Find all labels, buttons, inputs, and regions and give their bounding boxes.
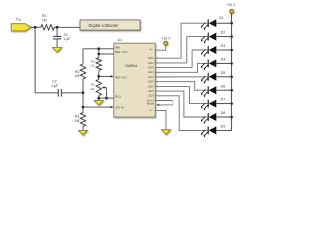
wire LM3914 pin LED9 to LED D9 (155, 96, 208, 131)
svg-text:REF OUT: REF OUT (115, 50, 128, 54)
LED D5 (201, 73, 216, 84)
ground below C1 (53, 48, 62, 53)
svg-text:D2: D2 (221, 31, 226, 35)
wire V- to ground (155, 110, 166, 129)
svg-text:D9: D9 (221, 125, 226, 129)
capacitor C1 (53, 36, 61, 39)
junction on +12V rail at D3 row (230, 49, 233, 52)
wire LED10 to Mode loop (155, 101, 173, 107)
wire R3 to ground (82, 127, 84, 131)
LED D8 (201, 113, 216, 124)
wire REF OUT node down to R4 (98, 54, 100, 58)
svg-text:LED9: LED9 (148, 95, 155, 98)
svg-text:D4: D4 (221, 58, 226, 62)
wire junction to C1 (56, 27, 58, 36)
svg-text:C1: C1 (64, 33, 68, 37)
svg-text:1M: 1M (75, 74, 80, 78)
resistor R1 (41, 25, 54, 30)
wire input node down left side (35, 27, 58, 93)
wire LM3914 pin LED1 to LED D1 (155, 23, 208, 58)
svg-text:RLO: RLO (115, 95, 122, 99)
ground below V- (162, 130, 171, 135)
svg-text:LED6: LED6 (148, 81, 155, 84)
resistor R3 (80, 113, 85, 127)
svg-text:LED2: LED2 (148, 62, 155, 65)
wire REF ADJ to IC with arrow (99, 75, 114, 77)
svg-text:U1: U1 (118, 38, 123, 42)
LED D7 (201, 100, 216, 111)
svg-text:V−: V− (149, 108, 153, 112)
wire pot bottom to RLO (99, 96, 114, 101)
wire R2 to SIG node (82, 79, 84, 107)
input terminal arrow VIN (11, 24, 31, 31)
svg-text:V+: V+ (149, 48, 153, 52)
svg-text:1 µF: 1 µF (64, 37, 71, 41)
wire input to R1 (31, 26, 41, 28)
wire C2 to node (61, 92, 83, 94)
capacitor C2 (58, 89, 61, 97)
svg-text:Digital voltmeter: Digital voltmeter (88, 23, 119, 28)
wire node to R3 (82, 107, 84, 112)
wire LM3914 pin LED4 to LED D4 (155, 63, 208, 72)
wire left rail top (82, 49, 84, 64)
wire link RHI to REF OUT (98, 49, 100, 54)
svg-text:LM3914: LM3914 (125, 64, 137, 68)
node C2/R2 junction (82, 91, 85, 94)
LED D1 (201, 19, 216, 30)
node REF ADJ junction (97, 75, 100, 78)
LED D4 (201, 59, 216, 70)
svg-text:REF ADJ: REF ADJ (115, 76, 127, 80)
wire RHI from rail corner to IC (83, 48, 114, 50)
digital voltmeter box (80, 20, 140, 30)
wire LED D8 anode to +12V rail (216, 116, 231, 118)
svg-text:SIG IN: SIG IN (115, 105, 124, 109)
junction on +12V rail at D4 row (230, 62, 233, 65)
node REF OUT junction (97, 53, 100, 56)
svg-text:LED8: LED8 (148, 90, 155, 93)
wire LED D4 anode to +12V rail (216, 62, 231, 64)
svg-text:11k: 11k (90, 87, 95, 91)
svg-text:D6: D6 (221, 84, 226, 88)
svg-text:1M: 1M (75, 119, 80, 123)
wire R4 to REF ADJ node (98, 71, 100, 80)
wire LM3914 pin LED3 to LED D3 (155, 50, 208, 68)
svg-text:D8: D8 (221, 111, 226, 115)
svg-text:R1: R1 (42, 14, 46, 18)
svg-text:LED4: LED4 (148, 71, 155, 74)
wire LED D2 anode to +12V rail (216, 36, 231, 38)
svg-text:1 µF: 1 µF (51, 84, 58, 88)
junction on +12V rail at D8 row (230, 116, 233, 119)
ground below potentiometer (94, 100, 103, 105)
wire LM3914 pin LED5 to LED D5 (155, 76, 208, 78)
op-amp U1 LM3914 IC body (114, 43, 155, 117)
LED D6 (201, 86, 216, 97)
junction on +12V rail at D5 row (230, 76, 233, 79)
junction on +12V rail at D1 row (230, 22, 233, 25)
svg-text:+12 V: +12 V (162, 37, 172, 41)
wire LED D6 anode to +12V rail (216, 89, 231, 91)
wire LED D5 anode to +12V rail (216, 76, 231, 78)
wire LM3914 pin LED8 to LED D8 (155, 91, 208, 117)
junction on +12V rail at D2 row (230, 35, 233, 38)
wire LM3914 pin LED6 to LED D6 (155, 82, 208, 91)
wire REF OUT to IC (99, 53, 114, 55)
node pot bottom junction (97, 97, 100, 100)
power terminal +12V at IC (164, 41, 168, 45)
resistor R2 (80, 64, 85, 79)
svg-text:R3: R3 (75, 115, 79, 119)
svg-text:+12 V: +12 V (226, 3, 236, 7)
node SIG IN junction (82, 106, 85, 109)
wire LM3914 pin LED2 to LED D2 (155, 37, 208, 63)
wire SIG IN to IC with arrow (83, 106, 114, 108)
svg-text:D7: D7 (221, 98, 226, 102)
wire LED D9 anode to +12V rail (216, 129, 231, 131)
node junction after R1 (56, 26, 59, 29)
LED D2 (201, 33, 216, 44)
resistor R4 1.2k (96, 58, 101, 71)
svg-text:LED5: LED5 (148, 76, 155, 79)
svg-text:1M: 1M (42, 19, 47, 23)
svg-text:Mode: Mode (147, 102, 155, 106)
svg-text:D1: D1 (219, 16, 224, 20)
wire LED D7 anode to +12V rail (216, 103, 231, 105)
LED D9 (201, 126, 216, 137)
power terminal +12V at rail (230, 9, 234, 13)
junction on +12V rail at D6 row (230, 89, 233, 92)
wire LM3914 pin LED7 to LED D7 (155, 86, 208, 103)
wire LED D1 anode to +12V rail (216, 22, 231, 24)
svg-text:LED1: LED1 (148, 57, 155, 60)
svg-text:R2: R2 (75, 70, 79, 74)
potentiometer R5 11k (96, 79, 106, 95)
node wiper junction (105, 97, 108, 100)
svg-text:LED7: LED7 (148, 85, 155, 88)
svg-text:D5: D5 (221, 71, 226, 75)
wire +12V rail (231, 13, 233, 130)
node junction at input (34, 26, 37, 29)
wire C1 to ground (56, 39, 58, 48)
svg-text:1.2k: 1.2k (89, 63, 95, 67)
svg-text:RHI: RHI (115, 45, 120, 49)
junction on +12V rail at D7 row (230, 102, 233, 105)
wire R1 to voltmeter box (54, 26, 80, 28)
node RHI junction (97, 47, 100, 50)
wire wiper down to RLO line (105, 88, 107, 99)
wire LED D3 anode to +12V rail (216, 49, 231, 51)
ground below R3 (79, 130, 88, 135)
svg-text:LED3: LED3 (148, 67, 155, 70)
wire V+ to supply (155, 45, 166, 50)
svg-text:D3: D3 (221, 44, 226, 48)
LED D3 (201, 46, 216, 57)
svg-text:C2: C2 (52, 79, 56, 83)
